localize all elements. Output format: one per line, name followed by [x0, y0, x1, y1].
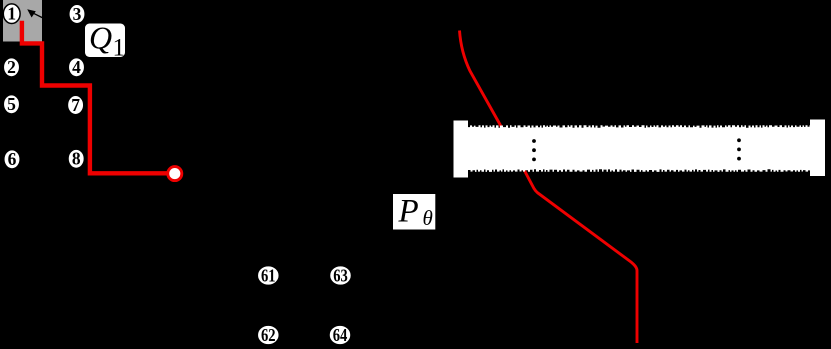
- state 4: [68, 57, 84, 77]
- P_theta label: [393, 194, 435, 231]
- red trajectory curve: [460, 31, 638, 344]
- svg-text:63: 63: [333, 265, 348, 285]
- svg-text:8: 8: [72, 149, 81, 169]
- state 62: [257, 325, 279, 345]
- svg-text:5: 5: [7, 94, 16, 114]
- svg-text:1: 1: [113, 35, 126, 62]
- svg-text:7: 7: [71, 95, 80, 115]
- state 1: [3, 4, 20, 24]
- svg-text:P: P: [398, 194, 419, 230]
- state 64: [329, 325, 351, 345]
- tape left cap: [454, 121, 469, 178]
- svg-text:θ: θ: [423, 206, 433, 230]
- state 3: [69, 4, 85, 24]
- arrow to start cell: [27, 9, 43, 18]
- ellipsis dots left: [532, 139, 536, 161]
- tape body with ragged edges: [466, 125, 812, 172]
- state 63: [330, 265, 352, 285]
- svg-text:6: 6: [8, 149, 17, 169]
- svg-text:3: 3: [73, 4, 82, 24]
- svg-text:61: 61: [261, 265, 276, 285]
- ellipsis dots right: [737, 138, 741, 160]
- svg-text:64: 64: [333, 325, 348, 345]
- state 2: [3, 57, 19, 77]
- red path through maze: [22, 21, 168, 174]
- gray start cell: [3, 0, 42, 42]
- state 8: [68, 149, 84, 169]
- svg-text:1: 1: [7, 4, 16, 24]
- svg-text:2: 2: [7, 57, 16, 77]
- Q1 label: [85, 20, 125, 62]
- path endpoint: [168, 167, 182, 181]
- state 6: [4, 149, 20, 169]
- svg-text:4: 4: [72, 57, 81, 77]
- tape right cap: [810, 120, 825, 177]
- state 61: [257, 265, 279, 285]
- state 7: [67, 95, 83, 115]
- svg-text:62: 62: [261, 325, 276, 345]
- svg-text:Q: Q: [89, 20, 112, 56]
- state 5: [3, 94, 19, 114]
